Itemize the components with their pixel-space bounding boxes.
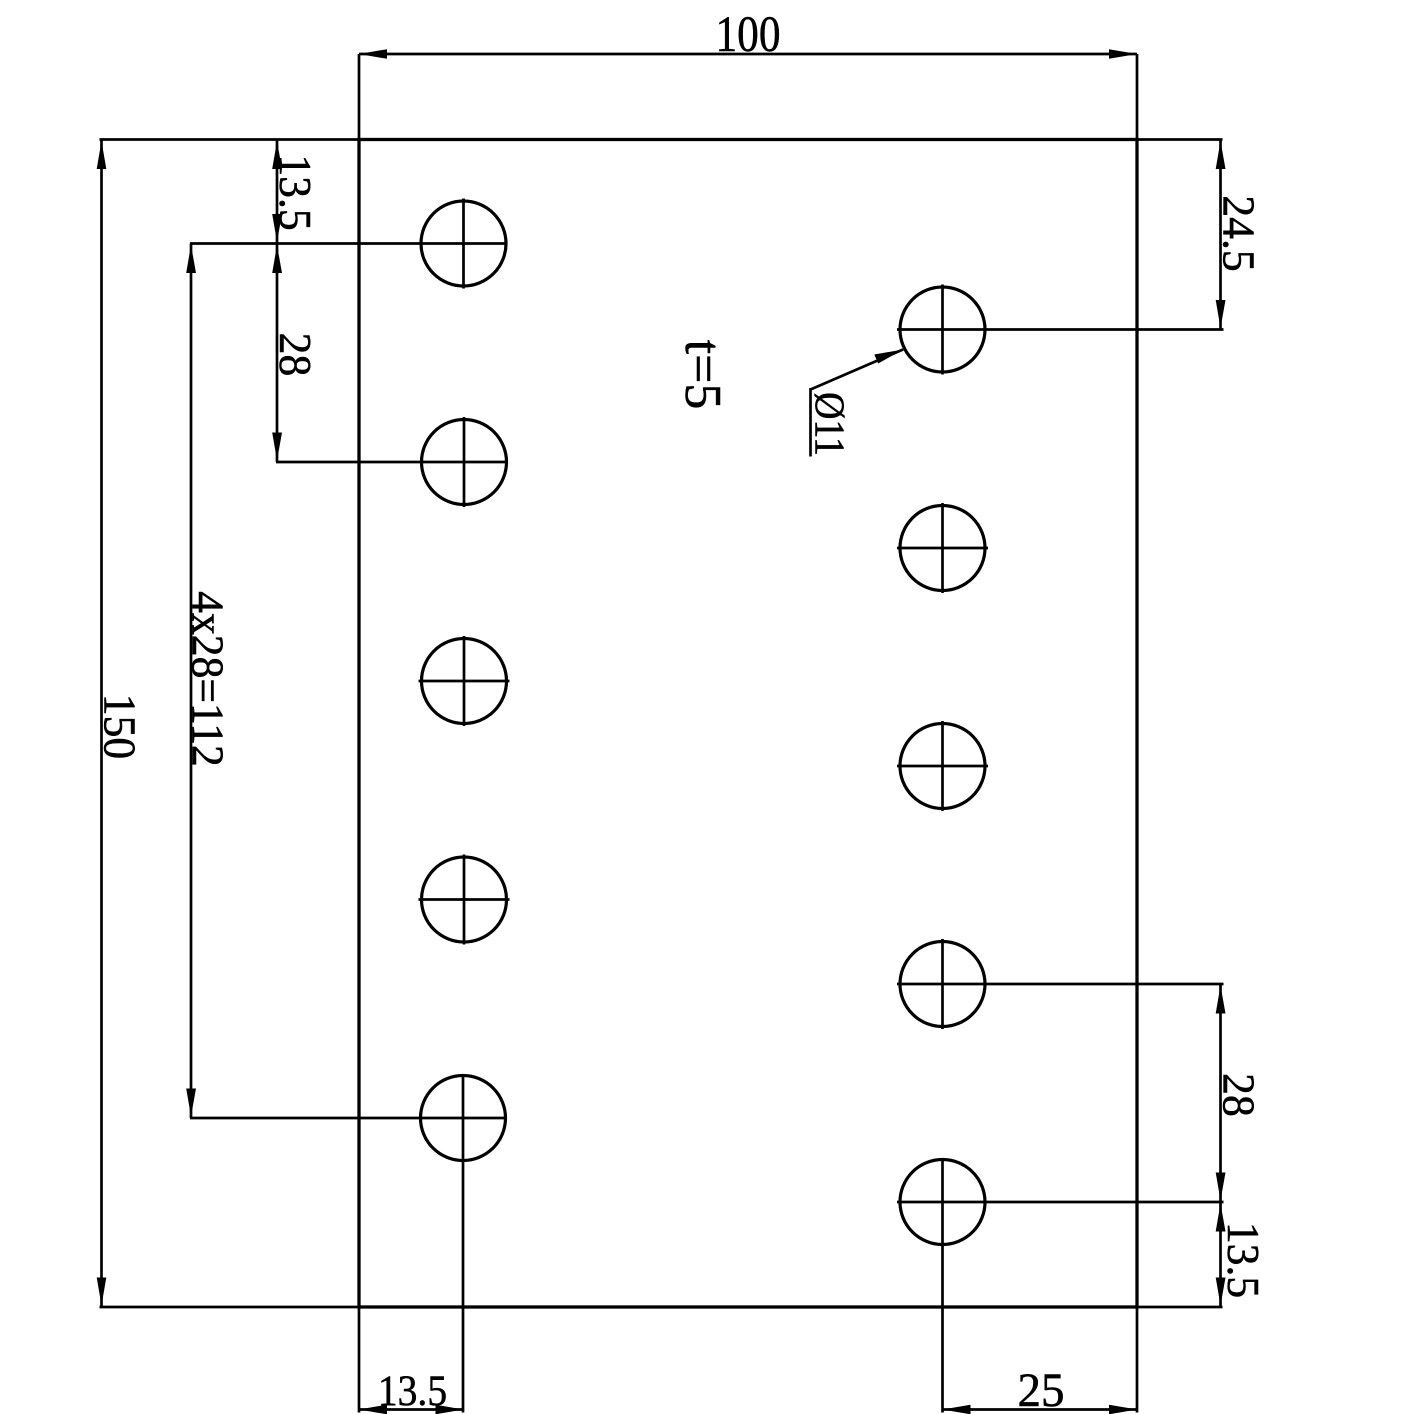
hole H8 right <box>897 721 988 811</box>
extension line plate right edge up to 100 dimension <box>1136 54 1139 140</box>
centerline hole H10 extended right to 13.5 dimension <box>897 1201 1224 1204</box>
hole H2 left <box>422 417 507 507</box>
hole H7 right <box>897 503 988 593</box>
extension line plate top edge left to 150 dimension <box>100 138 360 141</box>
extension line hole H10 column down to 25 dimension <box>941 1158 944 1413</box>
dimension line 28 left <box>272 244 282 463</box>
centerline hole H9 extended right to 28 dimension <box>897 983 1224 986</box>
svg-text:13.5: 13.5 <box>1218 1222 1269 1298</box>
plate outline <box>359 140 1137 1308</box>
dimension text 13.5 bottom <box>378 1366 447 1414</box>
hole H4 left <box>419 855 510 945</box>
dimension line 150 left <box>97 140 107 1308</box>
extension line plate bottom edge left to 150 dimension <box>100 1306 360 1309</box>
hole H3 left <box>419 636 510 726</box>
hole H1 left <box>421 199 506 289</box>
hole H6 right <box>900 285 985 375</box>
svg-text:13.5: 13.5 <box>270 154 321 230</box>
hole H5 left <box>421 1076 506 1161</box>
leader line for hole diameter <box>811 350 904 457</box>
dimension text 28 left <box>270 333 321 377</box>
svg-text:150: 150 <box>94 694 145 759</box>
extension line plate left edge up to 100 dimension <box>358 54 361 140</box>
extension line plate left edge down to bottom 13.5 dimension <box>358 1307 361 1413</box>
svg-text:28: 28 <box>1213 1073 1264 1117</box>
dimension line 28 right <box>1216 984 1226 1202</box>
centerline hole H6 extended right to 24.5 dimension <box>897 328 1224 331</box>
svg-text:100: 100 <box>715 7 780 63</box>
extension line hole H5 column down to bottom 13.5 dimension <box>462 1074 465 1413</box>
dimension line 13.5 bottom <box>359 1405 464 1414</box>
dimension text 4x28=112 <box>182 591 233 767</box>
dimension text 13.5 upper left <box>270 154 321 230</box>
thickness label t=5 <box>674 340 731 410</box>
hole H9 right <box>900 939 985 1029</box>
dimension line 13.5 upper left <box>272 140 282 244</box>
dimension text 28 right <box>1213 1073 1264 1117</box>
extension line plate top edge right to 24.5 dimension <box>1137 138 1223 141</box>
dimension line 25 bottom <box>943 1405 1138 1414</box>
dimension text 24.5 right <box>1213 195 1264 271</box>
extension line plate bottom edge right to 13.5 dimension <box>1137 1306 1223 1309</box>
centerline hole H1 extended to 4x28 dimension <box>190 242 507 245</box>
dimension line 4x28=112 left <box>186 244 196 1119</box>
svg-text:25: 25 <box>1017 1365 1064 1414</box>
dimension line 13.5 lower right <box>1216 1202 1226 1307</box>
dimension line 100 top <box>359 49 1137 59</box>
svg-text:24.5: 24.5 <box>1213 195 1264 271</box>
dimension text 13.5 lower right <box>1218 1222 1269 1298</box>
dimension text 25 bottom <box>1017 1365 1064 1414</box>
hole H10 right <box>900 1160 985 1245</box>
dimension text 150 <box>94 694 145 759</box>
dimension line 24.5 right <box>1216 140 1226 330</box>
svg-text:13.5: 13.5 <box>378 1366 447 1414</box>
leader text diameter 11 <box>806 392 853 456</box>
centerline hole H2 extended to 28 dimension <box>276 461 508 464</box>
centerline hole H5 extended to 4x28 dimension <box>190 1117 507 1120</box>
svg-text:4x28=112: 4x28=112 <box>182 591 233 767</box>
dimension text 100 <box>715 7 780 63</box>
svg-text:t=5: t=5 <box>674 340 731 410</box>
extension line plate right edge down to 25 dimension <box>1136 1307 1139 1413</box>
svg-text:28: 28 <box>270 333 321 377</box>
svg-text:Ø11: Ø11 <box>806 392 853 456</box>
